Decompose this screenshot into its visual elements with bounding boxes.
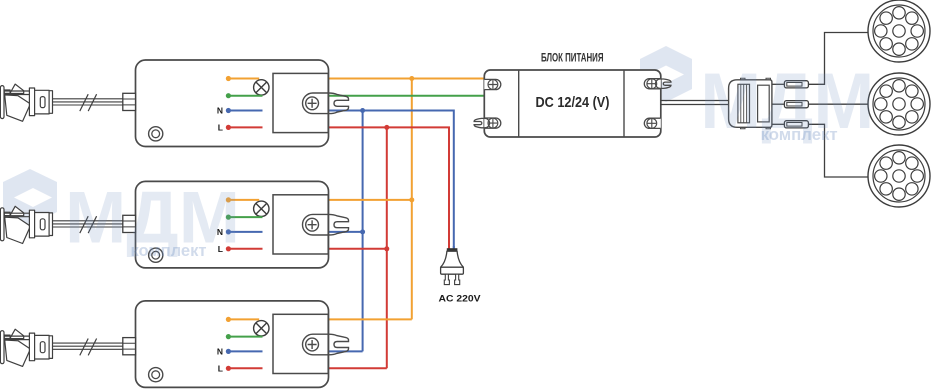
wire connector3 to light 3 — [808, 124, 869, 177]
controller box 2 — [136, 181, 329, 268]
box1 orange terminal dot and stub — [226, 76, 259, 81]
connector 3 — [784, 121, 808, 128]
PSU screw capsule top-left — [484, 79, 501, 89]
AC plug body — [441, 251, 464, 267]
box2 green terminal dot and stub — [226, 215, 263, 220]
junction dot orange 2 — [409, 197, 414, 202]
power supply right divider — [623, 70, 625, 137]
box1 cable entry and lead — [52, 93, 136, 111]
box2 blue terminal dot and stub — [226, 229, 263, 234]
svg-text:БЛОК ПИТАНИЯ: БЛОК ПИТАНИЯ — [541, 51, 604, 65]
box2 cable entry and lead — [52, 215, 136, 233]
downlight 3 — [868, 145, 930, 207]
plug P1 — [0, 84, 52, 121]
box2 orange wire — [293, 199, 412, 201]
junction dot red 2 — [384, 246, 389, 251]
splitter block — [729, 80, 772, 128]
box1 blue wire to AC plug — [293, 111, 454, 249]
PSU screw bottom-left — [488, 118, 498, 128]
wire splitter to connector 3 — [772, 123, 785, 125]
svg-text:комплект: комплект — [131, 241, 207, 260]
junction dot red 1 — [384, 125, 389, 130]
splitter top notches — [741, 78, 771, 80]
connector 2 — [784, 101, 808, 108]
wire connector2 to light 2 — [808, 103, 870, 105]
PSU screw capsule bottom-right — [644, 118, 660, 128]
box2 blue wire — [293, 231, 363, 233]
plug P2 — [0, 206, 52, 243]
svg-text:DC 12/24 (V): DC 12/24 (V) — [536, 94, 610, 111]
PSU screw top-left — [488, 80, 498, 90]
box3 green terminal dot and stub — [226, 334, 263, 339]
PSU screw capsule top-right — [644, 79, 660, 89]
power supply unit box — [484, 70, 661, 137]
splitter ribbed bar — [738, 84, 750, 123]
AC plug right prong — [455, 274, 460, 284]
splitter bottom notches — [741, 127, 771, 129]
orange bus vertical — [411, 79, 413, 320]
box3 red wire — [293, 367, 387, 369]
box3 orange terminal dot and stub — [226, 317, 259, 322]
blue bus vertical — [362, 111, 364, 352]
svg-text:AC 220V: AC 220V — [439, 293, 482, 303]
controller box 3 — [136, 301, 329, 388]
box3 blue wire — [293, 350, 363, 352]
PSU screw top-right — [647, 79, 657, 89]
connector 1 — [784, 81, 808, 88]
AC plug left prong — [444, 274, 449, 284]
box1 red wire to AC plug — [293, 127, 449, 248]
box1 green wire to power supply — [293, 95, 484, 97]
box1 green terminal dot and stub — [226, 93, 263, 98]
junction dot blue 1 — [360, 108, 365, 113]
box3 orange wire — [293, 318, 412, 320]
PSU fork bottom-left — [474, 118, 490, 127]
box2 orange terminal dot and stub — [226, 197, 259, 202]
downlight 2 — [868, 73, 930, 135]
output cable from PSU — [661, 101, 730, 105]
splitter plain bar — [758, 85, 770, 122]
wire connector1 to light 1 — [808, 33, 869, 85]
AC plug red wire end — [448, 246, 450, 250]
power supply left divider — [518, 70, 520, 137]
wire splitter to connector 1 — [772, 83, 785, 85]
box3 blue terminal dot and stub — [226, 349, 263, 354]
PSU screw capsule bottom-left — [484, 118, 501, 128]
red bus vertical — [386, 127, 388, 368]
box1 orange wire to power supply — [293, 78, 484, 80]
box2 red terminal dot and stub — [226, 246, 263, 251]
box3 red terminal dot and stub — [226, 366, 263, 371]
watermark right logo icon — [640, 46, 692, 102]
controller box 1 — [136, 60, 329, 147]
box3 cable entry and lead — [52, 338, 136, 356]
box1 red terminal dot and stub — [226, 125, 263, 130]
svg-text:комплект: комплект — [761, 125, 838, 144]
downlight 1 — [868, 0, 930, 62]
box1 blue terminal dot and stub — [226, 108, 263, 113]
junction dot orange 1 — [409, 76, 414, 81]
box2 red wire — [293, 248, 387, 250]
AC plug cable gland — [447, 248, 458, 251]
AC plug base — [441, 267, 464, 274]
PSU screw bottom-right — [647, 118, 657, 128]
wire splitter to connector 2 — [772, 103, 785, 105]
junction dot blue 2 — [360, 229, 365, 234]
PSU fork top-right — [656, 79, 672, 88]
box2 clamp with screw — [303, 214, 349, 235]
watermark left logo icon — [3, 169, 57, 225]
plug P3 — [0, 329, 52, 366]
AC plug blue wire end — [453, 246, 455, 250]
box1 clamp with screw — [303, 93, 349, 114]
box3 clamp with screw — [303, 334, 349, 355]
